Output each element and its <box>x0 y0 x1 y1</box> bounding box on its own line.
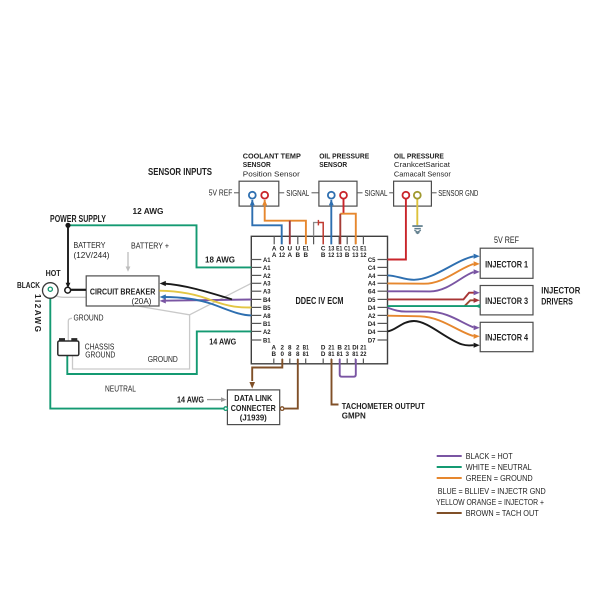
svg-text:D4: D4 <box>368 305 376 312</box>
svg-text:B: B <box>304 252 309 259</box>
svg-text:64: 64 <box>368 289 376 296</box>
svg-text:GREEN = GROUND: GREEN = GROUND <box>466 473 533 483</box>
svg-text:HOT: HOT <box>46 269 61 278</box>
svg-text:A4: A4 <box>368 273 376 280</box>
svg-text:8: 8 <box>288 351 292 358</box>
svg-text:C5: C5 <box>368 257 376 264</box>
svg-text:A3: A3 <box>263 289 271 296</box>
svg-text:B4: B4 <box>263 297 271 304</box>
svg-text:DDEC IV ECM: DDEC IV ECM <box>296 296 344 307</box>
svg-text:BROWN = TACH OUT: BROWN = TACH OUT <box>466 508 539 518</box>
svg-text:A4: A4 <box>368 281 376 288</box>
svg-text:B1: B1 <box>263 321 271 328</box>
svg-text:B: B <box>296 252 301 259</box>
svg-text:B: B <box>272 351 277 358</box>
svg-text:D4: D4 <box>368 321 376 328</box>
svg-text:BLACK = HOT: BLACK = HOT <box>466 451 513 461</box>
svg-text:YELLOW ORANGE = INJECTOR +: YELLOW ORANGE = INJECTOR + <box>436 497 544 507</box>
svg-text:5V REF: 5V REF <box>209 188 233 197</box>
svg-text:(20A): (20A) <box>132 297 152 306</box>
svg-text:DATA LINK: DATA LINK <box>234 393 273 403</box>
svg-text:81: 81 <box>328 351 335 358</box>
svg-text:18 AWG: 18 AWG <box>205 256 235 265</box>
svg-text:INJECTOR 4: INJECTOR 4 <box>485 333 529 344</box>
svg-text:12: 12 <box>279 252 286 259</box>
svg-text:A2: A2 <box>368 313 376 320</box>
svg-text:B1: B1 <box>263 337 271 344</box>
svg-text:D4: D4 <box>368 329 376 336</box>
svg-text:A2: A2 <box>263 273 271 280</box>
svg-text:C4: C4 <box>368 265 376 272</box>
svg-text:A8: A8 <box>263 313 271 320</box>
svg-text:GROUND: GROUND <box>85 351 115 360</box>
svg-text:SIGNAL: SIGNAL <box>365 189 388 198</box>
svg-text:SENSOR GND: SENSOR GND <box>438 189 478 198</box>
svg-text:CrankcetSaricat: CrankcetSaricat <box>394 160 451 169</box>
svg-text:81: 81 <box>303 351 310 358</box>
svg-text:INJECTOR: INJECTOR <box>541 285 580 295</box>
svg-text:SENSOR: SENSOR <box>319 160 348 169</box>
svg-text:14 AWG: 14 AWG <box>177 395 204 404</box>
svg-text:13: 13 <box>352 252 359 259</box>
svg-text:A: A <box>288 252 293 259</box>
svg-text:81: 81 <box>337 351 344 358</box>
svg-text:A: A <box>272 252 277 259</box>
svg-text:0: 0 <box>281 351 285 358</box>
svg-text:SIGNAL: SIGNAL <box>286 189 309 198</box>
svg-text:BATTERY: BATTERY <box>74 241 107 250</box>
svg-text:B5: B5 <box>263 305 271 312</box>
svg-text:A3: A3 <box>263 281 271 288</box>
svg-text:INJECTOR 1: INJECTOR 1 <box>485 259 529 270</box>
svg-text:D5: D5 <box>368 297 376 304</box>
svg-text:BLACK: BLACK <box>17 281 40 290</box>
svg-text:CIRCUIT BREAKER: CIRCUIT BREAKER <box>90 286 156 296</box>
svg-text:3: 3 <box>345 351 349 358</box>
svg-text:22: 22 <box>360 351 367 358</box>
svg-text:BATTERY +: BATTERY + <box>131 242 169 251</box>
svg-text:SENSOR INPUTS: SENSOR INPUTS <box>148 167 212 178</box>
svg-text:12: 12 <box>328 252 335 259</box>
svg-text:13: 13 <box>336 252 343 259</box>
svg-text:DRIVERS: DRIVERS <box>541 296 573 306</box>
svg-text:D7: D7 <box>368 337 376 344</box>
svg-text:B: B <box>321 252 326 259</box>
svg-text:GROUND: GROUND <box>148 355 178 364</box>
svg-text:81: 81 <box>352 351 359 358</box>
svg-text:Camacalt Sensor: Camacalt Sensor <box>394 170 451 179</box>
svg-text:12 AWG: 12 AWG <box>133 207 164 216</box>
svg-text:NEUTRAL: NEUTRAL <box>105 385 136 394</box>
svg-text:INJECTOR 3: INJECTOR 3 <box>485 296 528 307</box>
svg-text:(12V/244): (12V/244) <box>74 251 110 260</box>
svg-text:(J1939): (J1939) <box>240 412 267 422</box>
svg-text:BLUE = BLLIEV = INJECTR GND: BLUE = BLLIEV = INJECTR GND <box>438 486 546 496</box>
svg-text:5V REF: 5V REF <box>494 235 519 245</box>
svg-text:A1: A1 <box>263 257 271 264</box>
svg-text:GMPN: GMPN <box>342 411 366 421</box>
svg-text:GROUND: GROUND <box>74 314 104 323</box>
svg-text:SENSOR: SENSOR <box>243 160 272 169</box>
svg-text:TACHOMETER OUTPUT: TACHOMETER OUTPUT <box>342 401 426 411</box>
svg-text:1I2AWG: 1I2AWG <box>33 294 42 332</box>
svg-text:8: 8 <box>296 351 300 358</box>
svg-text:B: B <box>345 252 350 259</box>
svg-text:WHITE = NEUTRAL: WHITE = NEUTRAL <box>466 462 532 472</box>
svg-text:A1: A1 <box>263 265 271 272</box>
svg-text:A2: A2 <box>263 329 271 336</box>
svg-text:12: 12 <box>360 252 367 259</box>
svg-text:Position Sensor: Position Sensor <box>243 170 301 179</box>
svg-text:14 AWG: 14 AWG <box>209 338 236 347</box>
svg-text:POWER SUPPLY: POWER SUPPLY <box>50 214 106 225</box>
svg-text:D: D <box>321 351 326 358</box>
